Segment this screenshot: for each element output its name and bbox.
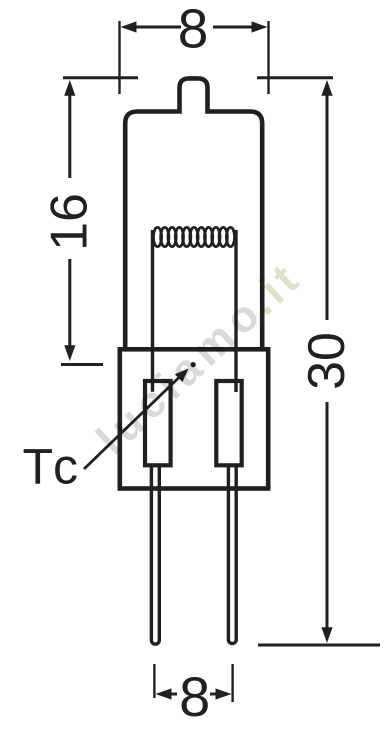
dimension 30: top arrow (321, 80, 332, 320)
dimension 30: bottom extension line (258, 644, 380, 647)
dimension 16: top arrow (64, 80, 75, 178)
svg-text:30: 30 (298, 332, 356, 390)
top dimension 8: left arrow (121, 21, 182, 32)
dimension 16: bottom extension line (61, 363, 103, 366)
lamp bulb outline with exhaust tip (125, 78, 262, 351)
dimension 30: bottom arrow (321, 402, 332, 643)
top dimension 8: left extension tick (118, 21, 120, 94)
svg-text:Tc: Tc (23, 439, 79, 495)
svg-text:8: 8 (179, 665, 210, 728)
top reference extension line right (257, 76, 333, 79)
bottom dimension 8: right arrow (210, 688, 232, 699)
Tc measurement dot (191, 362, 196, 367)
right pin (228, 466, 236, 644)
left pin (151, 466, 159, 644)
bottom dimension 8: left extension line (153, 664, 155, 698)
Tc pointer line (84, 377, 180, 470)
bottom dimension 8: right extension line (231, 664, 233, 702)
watermark luciamo.it (87, 252, 310, 465)
right lead wire (234, 230, 237, 392)
dimension 16: bottom arrow (64, 259, 75, 361)
right pin holder (216, 381, 241, 465)
top reference extension line left (63, 76, 138, 79)
svg-text:8: 8 (178, 0, 209, 60)
top dimension 8: right extension tick (267, 21, 269, 94)
Tc pointer arrowhead (175, 369, 189, 383)
top dimension 8: right arrow (213, 21, 268, 32)
left lead wire (151, 230, 154, 392)
left pin holder (145, 381, 171, 465)
svg-text:16: 16 (41, 193, 99, 251)
filament coil (153, 227, 234, 246)
base rectangle (120, 349, 268, 488)
bottom dimension 8: left arrow (156, 688, 178, 699)
